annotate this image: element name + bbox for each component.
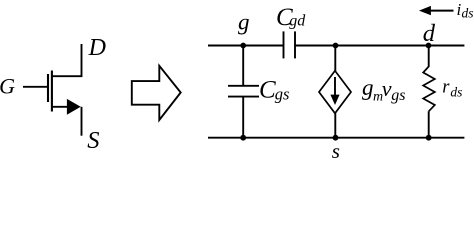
- wire drain lead: [52, 44, 82, 76]
- current source gm·vgs diamond: [319, 71, 351, 114]
- svg-text:ds: ds: [450, 85, 462, 100]
- svg-text:G: G: [0, 74, 15, 99]
- wire source lead: [52, 106, 70, 108]
- transistor Q1 gate bar: [47, 74, 49, 102]
- wire Cgs upper: [242, 46, 244, 87]
- node s (bottom, under current source): [333, 135, 339, 141]
- node at current source top: [333, 43, 339, 49]
- svg-text:gs: gs: [275, 84, 290, 103]
- current source arrow shaft: [334, 77, 336, 96]
- capacitor Cgs: [228, 86, 259, 97]
- svg-text:r: r: [442, 77, 450, 97]
- transistor Q1 channel bar: [51, 71, 53, 112]
- svg-text:v: v: [382, 76, 392, 101]
- svg-text:gd: gd: [289, 12, 306, 29]
- svg-text:gs: gs: [391, 87, 405, 104]
- svg-text:g: g: [238, 10, 250, 35]
- wire Cgs lower: [242, 97, 244, 138]
- svg-text:g: g: [362, 75, 374, 100]
- current arrow i_ds head: [419, 6, 431, 15]
- wire current source upper: [334, 46, 336, 72]
- current arrow i_ds shaft: [429, 10, 454, 12]
- current source arrow head: [330, 95, 339, 105]
- svg-text:d: d: [423, 20, 436, 47]
- svg-text:C: C: [259, 77, 276, 104]
- node d: [426, 43, 432, 49]
- wire resistor upper: [428, 46, 430, 68]
- svg-text:D: D: [88, 35, 106, 61]
- node s (bottom, under resistor): [426, 135, 432, 141]
- svg-text:ds: ds: [462, 5, 474, 20]
- svg-text:s: s: [332, 139, 340, 163]
- wire top rail right segment: [295, 45, 464, 47]
- wire source lead vertical: [81, 107, 83, 136]
- wire gate lead: [23, 86, 48, 88]
- transistor Q1 source arrow: [67, 99, 81, 115]
- wire current source lower: [334, 113, 336, 137]
- wire bottom rail: [208, 137, 464, 139]
- wire top rail left segment: [208, 45, 284, 47]
- node s (bottom, under Cgs): [240, 135, 246, 141]
- capacitor Cgd: [284, 31, 296, 58]
- resistor rds: [423, 67, 435, 112]
- svg-text:S: S: [87, 127, 99, 154]
- block arrow: [132, 66, 181, 120]
- wire resistor lower: [428, 111, 430, 137]
- node g: [240, 43, 246, 49]
